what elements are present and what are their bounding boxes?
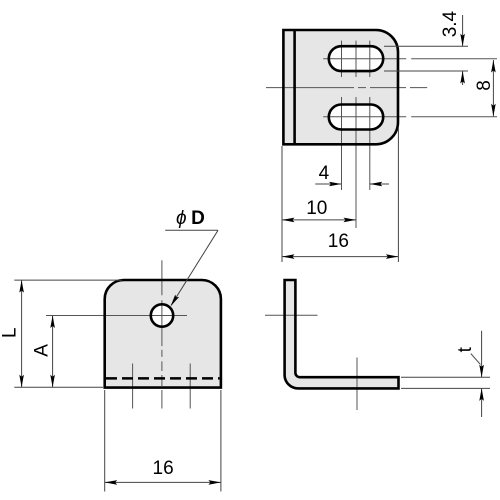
dimension 3.4 arrow lower [460,71,465,84]
lower slot center line horizontal [323,116,497,118]
front view body fill [105,280,221,388]
extension line slot bottom edge [384,70,468,72]
dimension 4 line left piece [315,183,341,185]
svg-text:16: 16 [153,458,174,479]
top view body fill [283,30,398,144]
slot hole lower outline [329,105,383,130]
dimension 16 top view arrow left [282,254,295,259]
phi-D leader underline [165,229,218,231]
hidden bend line dashed [106,377,220,380]
dimension 16 front line [105,481,221,483]
horizontal center line of top view [266,87,427,89]
svg-text:3.4: 3.4 [440,10,461,37]
hole vertical center line [161,260,163,408]
dimension 3.4 line [462,15,464,85]
phi-D leader line [171,230,218,305]
left edge extension line for 10/16 [281,146,283,262]
dimension t line [481,331,483,417]
dimension 10 line [282,219,356,221]
slot projection line right [189,364,191,409]
side view L profile fill [285,280,399,388]
dimension t arrow lower [479,388,484,401]
t top extension line [401,376,490,378]
dimension 4 arrow right [370,182,383,187]
extension line slot top edge [384,45,468,47]
dimension 3.4 arrow upper [460,34,465,47]
dimension 10 arrow right [344,218,357,223]
svg-text:10: 10 [306,198,327,219]
dimension L arrow bottom [19,375,24,388]
hole outline [151,304,173,326]
t leader tick [471,354,481,365]
dimension A arrow bottom [50,375,55,388]
slot right arc center line vertical [369,41,371,190]
slot hole lower fill [329,105,383,130]
svg-text:16: 16 [328,231,349,252]
side view hole center line projection [265,314,318,316]
hole fill [151,304,173,326]
dimension 16 front arrow right [208,480,221,485]
front view body outline [105,280,221,388]
svg-text:t: t [455,346,476,352]
dimension 8 arrow upper [491,60,496,73]
upper slot center line horizontal [323,58,497,60]
side view slot center line projection [356,358,358,411]
slot left arc center line vertical [341,41,343,190]
slot middle center line vertical [355,41,357,228]
bend/fold line (flange edge) [293,30,296,144]
dimension 8 line [492,60,494,116]
t bottom extension line [401,387,490,389]
right edge extension line for 16 [397,128,399,262]
slot projection line left [132,364,134,409]
dimension t arrow upper [479,365,484,378]
dimension L arrow top [19,280,24,293]
slot hole upper fill [329,46,383,71]
L top extension line [14,279,122,281]
dimension 10 arrow left [282,218,295,223]
dimension 16 front arrow left [105,480,118,485]
svg-text:ϕD: ϕD [176,208,205,229]
hole horizontal center line [46,315,187,317]
top view body outline [283,30,398,144]
dimension 4 arrow left [329,182,342,187]
side view L profile outline [285,280,399,388]
svg-text:8: 8 [474,80,495,91]
svg-text:A: A [32,344,53,357]
phi-D leader arrow [169,294,180,307]
svg-text:L: L [0,327,20,338]
dimension A line [52,316,54,388]
L bottom extension line [14,386,103,388]
dimension 16 top view line [282,256,398,258]
slot hole upper outline [329,46,383,71]
dimension 16 top view arrow right [386,254,399,259]
dimension A arrow top [50,316,55,329]
front 16 right extension line [220,390,222,492]
svg-text:4: 4 [319,163,330,184]
dimension L line [21,280,23,387]
dimension 4 line right piece [370,183,389,185]
dimension 8 arrow lower [491,104,496,117]
front 16 left extension line [104,390,106,492]
